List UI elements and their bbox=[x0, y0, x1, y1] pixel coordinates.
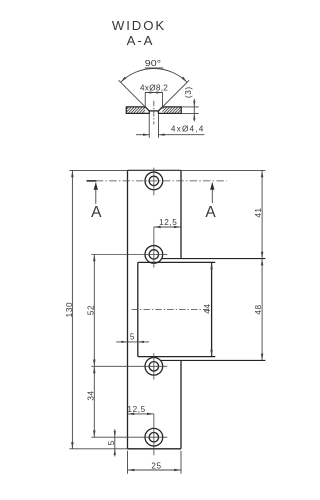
svg-text:52: 52 bbox=[87, 305, 96, 315]
dim 25 bbox=[128, 451, 182, 474]
dim 52 bbox=[93, 254, 95, 366]
box centre line bbox=[132, 309, 210, 311]
svg-text:4xØ4,4: 4xØ4,4 bbox=[171, 125, 204, 134]
svg-text:34: 34 bbox=[87, 390, 96, 400]
hole H2 countersunk bbox=[145, 246, 163, 264]
section line thick end left bbox=[87, 180, 97, 182]
extension line bottom edge bbox=[69, 448, 127, 450]
section arrow left bbox=[95, 183, 97, 204]
dim 4x dia 4,4 bbox=[136, 113, 204, 137]
svg-text:12,5: 12,5 bbox=[127, 405, 145, 414]
extension line top edge bbox=[69, 169, 265, 171]
svg-text:25: 25 bbox=[151, 461, 161, 470]
svg-text:12,5: 12,5 bbox=[159, 218, 177, 227]
dim 34 bbox=[93, 366, 95, 437]
front view plate outline bbox=[128, 170, 182, 448]
svg-text:A-A: A-A bbox=[127, 33, 155, 48]
svg-text:4xØ8,2: 4xØ8,2 bbox=[140, 84, 169, 93]
dim 4x dia 8,2 bbox=[145, 92, 162, 107]
svg-text:41: 41 bbox=[254, 207, 263, 217]
section plate outline with countersunk hole bbox=[126, 107, 181, 114]
dim 41 bbox=[261, 170, 263, 258]
dim 44 arrows on box edge bbox=[210, 262, 213, 356]
svg-text:5: 5 bbox=[130, 332, 135, 341]
bent lip top edge bbox=[162, 258, 266, 260]
hole H4 countersunk bbox=[145, 428, 163, 446]
hole H3 countersunk bbox=[145, 357, 163, 375]
hole H1 countersunk bbox=[145, 172, 163, 190]
dim (3) thickness bbox=[181, 99, 199, 122]
hole H4 centre marks bbox=[153, 414, 155, 455]
bent lip bottom edge bbox=[160, 359, 265, 361]
svg-text:WIDOK: WIDOK bbox=[112, 18, 166, 33]
section hatching right bbox=[162, 108, 180, 113]
hole H3 centre marks bbox=[153, 353, 155, 379]
svg-text:48: 48 bbox=[254, 304, 263, 314]
hole H2 centre marks bbox=[153, 227, 155, 268]
hole H1 vertical centre mark bbox=[153, 168, 155, 196]
svg-text:(3): (3) bbox=[184, 86, 193, 98]
dim 12,5 top bbox=[154, 226, 181, 228]
svg-text:130: 130 bbox=[65, 302, 74, 317]
dim 48 bbox=[261, 259, 263, 361]
latch opening box bbox=[138, 262, 216, 356]
svg-text:5: 5 bbox=[107, 440, 116, 445]
90 deg cone side extensions bbox=[119, 80, 189, 107]
dim 12,5 bottom bbox=[128, 413, 154, 415]
section centre line bbox=[153, 101, 155, 125]
dim 5 box offset bbox=[116, 341, 149, 343]
svg-text:A: A bbox=[91, 204, 102, 221]
section line A-A dash-dot bbox=[96, 180, 227, 182]
dim 5 bottom bbox=[114, 429, 116, 456]
90 deg dimension arc bbox=[121, 69, 187, 83]
section arrow right bbox=[211, 183, 213, 204]
dim 130 bbox=[71, 170, 73, 448]
svg-text:A: A bbox=[205, 204, 216, 221]
section hatching left bbox=[127, 108, 145, 113]
svg-text:90°: 90° bbox=[145, 59, 161, 68]
svg-text:44: 44 bbox=[203, 303, 212, 313]
